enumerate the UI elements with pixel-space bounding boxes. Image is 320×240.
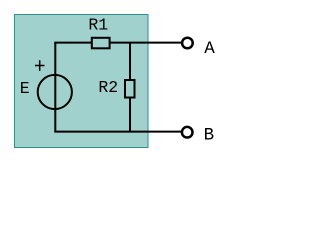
wire top (node to terminal A) xyxy=(54,42,182,44)
plus sign xyxy=(35,60,45,71)
network box (shaded region) xyxy=(15,15,149,148)
wire bottom (node to terminal B) xyxy=(54,131,182,133)
resistor R1 xyxy=(92,38,110,49)
voltage source E xyxy=(38,75,72,109)
svg-text:R1: R1 xyxy=(88,16,108,35)
wire R2 branch vertical xyxy=(129,43,131,132)
svg-text:R2: R2 xyxy=(98,78,118,97)
svg-text:B: B xyxy=(204,126,215,146)
resistor R2 xyxy=(125,80,135,98)
svg-text:E: E xyxy=(20,79,30,98)
svg-text:A: A xyxy=(204,39,215,59)
terminal A xyxy=(182,38,193,49)
wire left vertical through source xyxy=(54,43,56,132)
terminal B xyxy=(182,127,193,138)
